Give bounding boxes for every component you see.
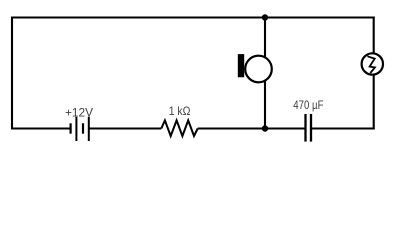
battery V1 (71, 117, 89, 141)
svg-text:+12V: +12V (65, 105, 94, 119)
svg-text:1 kΩ: 1 kΩ (169, 104, 191, 118)
wire speaker branch (264, 18, 266, 129)
wire resistor to capacitor (198, 127, 306, 129)
wire battery to resistor (89, 127, 162, 129)
junction dot top (262, 14, 268, 20)
wire bottom left (11, 127, 71, 129)
svg-text:470 µF: 470 µF (293, 99, 323, 112)
junction dot bottom (262, 125, 268, 131)
speaker SP1 magnet (238, 54, 244, 77)
lamp body (362, 53, 383, 74)
speaker SP1 body (245, 56, 272, 83)
wire top (11, 16, 375, 18)
wire left (11, 17, 13, 130)
wire capacitor to corner (311, 127, 375, 129)
resistor R1 (161, 120, 197, 136)
lamp bolt (367, 56, 375, 73)
capacitor C1 (306, 114, 312, 142)
wire right (373, 17, 375, 130)
